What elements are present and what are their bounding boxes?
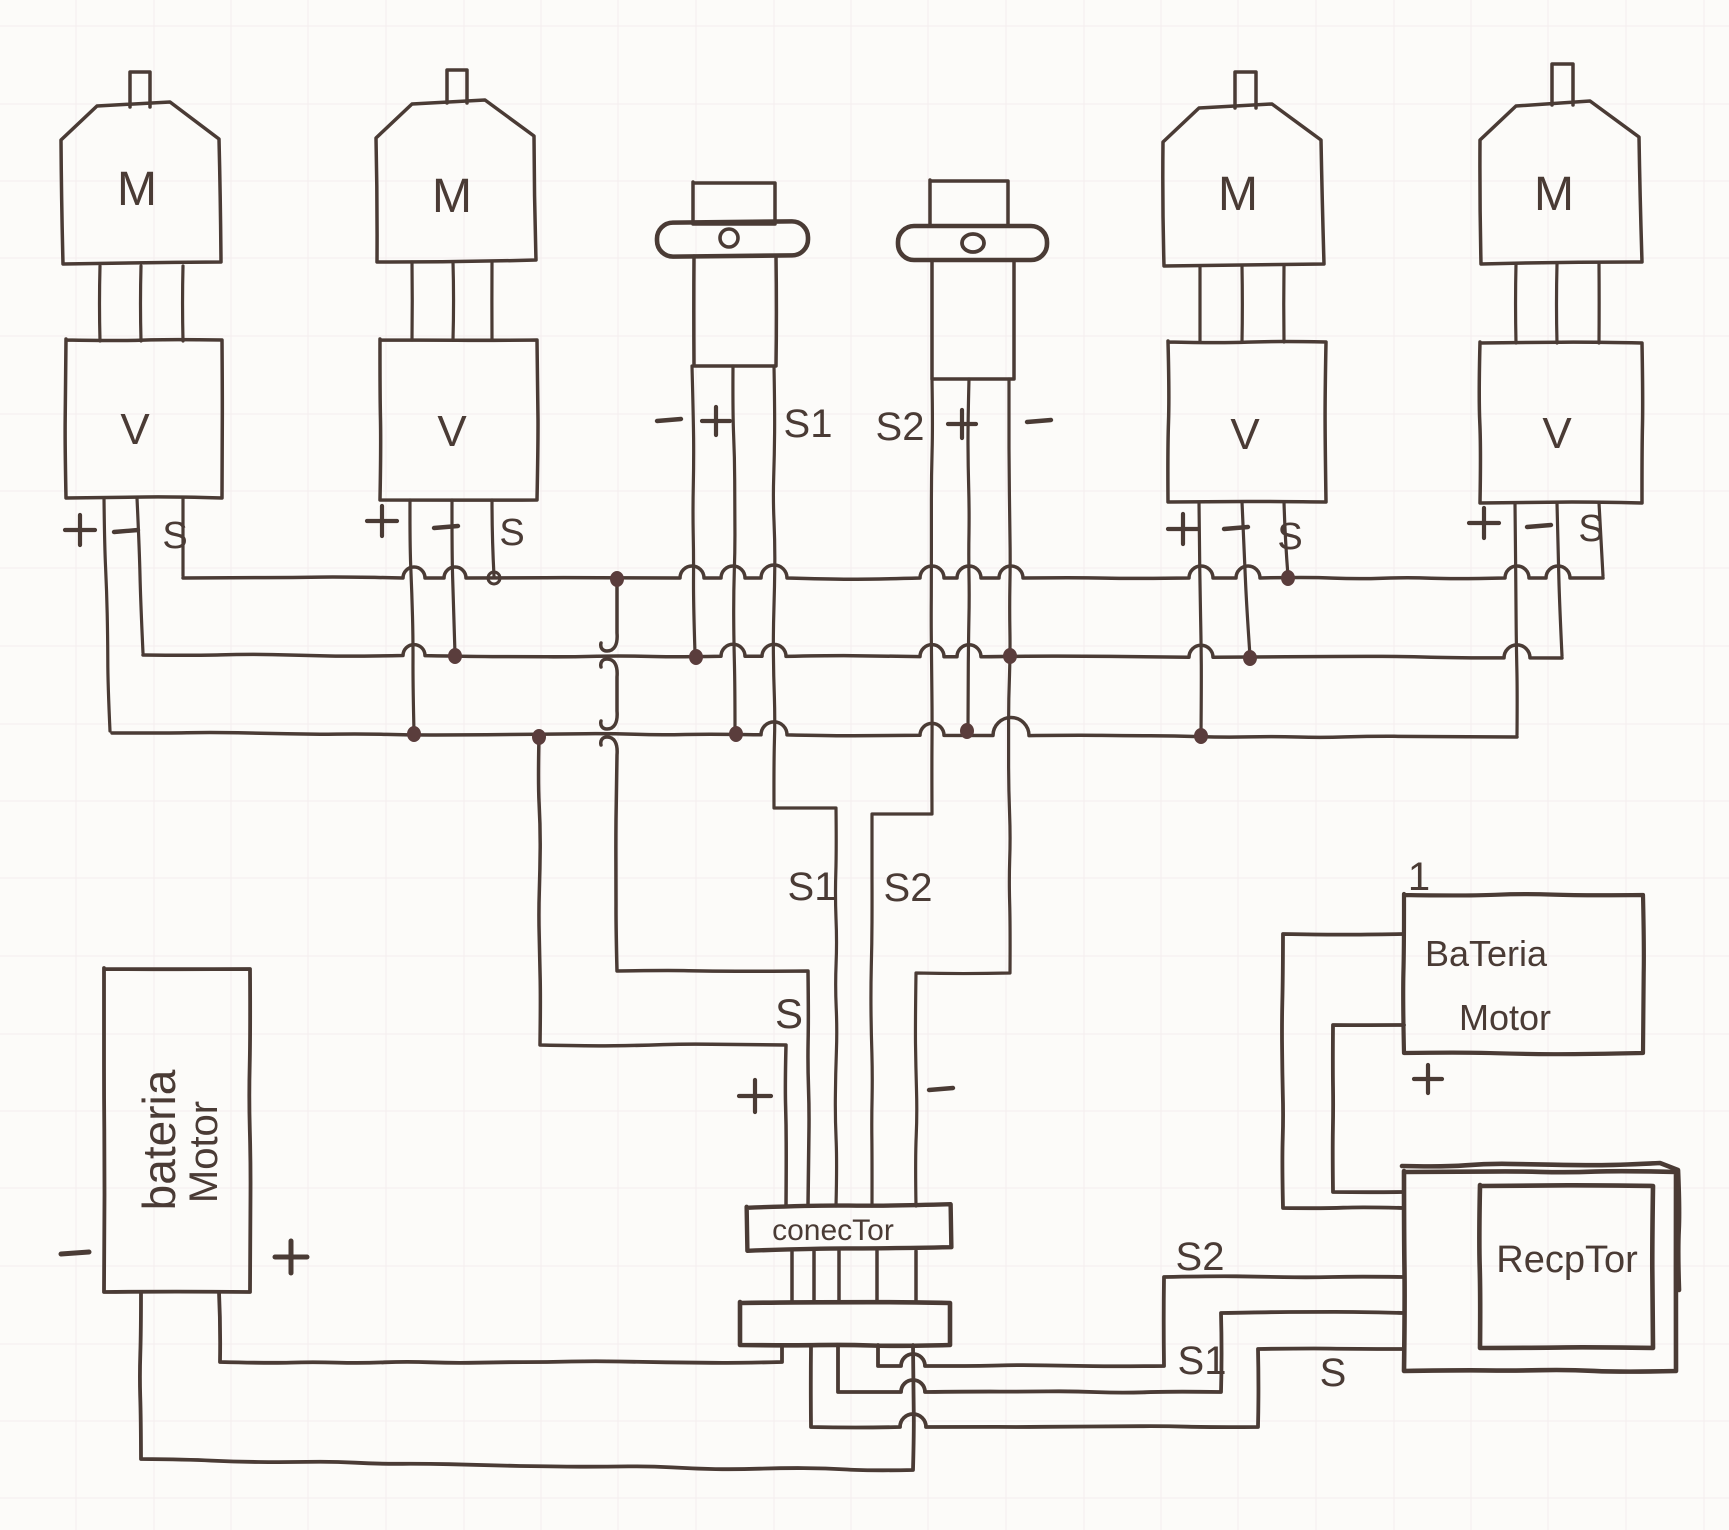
ESC1 + label <box>65 528 95 532</box>
motor M4 body <box>1480 101 1642 264</box>
servo S1 body <box>694 256 777 366</box>
svg-text:S2: S2 <box>1176 1235 1225 1279</box>
motor M4 to ESC wires <box>1514 264 1518 343</box>
wire S bus <box>183 565 1603 579</box>
wire S2 to receptor <box>878 1276 1404 1366</box>
motor M1 body <box>61 102 221 264</box>
junction dots <box>610 571 624 587</box>
wire ESC1 - lead <box>137 498 143 653</box>
servo S2 + label <box>948 422 976 426</box>
- feed label <box>929 1088 953 1090</box>
servo S2 flange <box>898 226 1047 260</box>
servo S1 top <box>693 182 775 224</box>
svg-text:V: V <box>120 405 150 454</box>
wire ESC3 - lead <box>1242 502 1250 656</box>
wire battery - to connector <box>140 1292 914 1470</box>
wire ESC3 S lead <box>1284 502 1288 576</box>
svg-text:V: V <box>1230 410 1260 459</box>
svg-text:S1: S1 <box>1178 1339 1227 1383</box>
motor M2 body <box>376 100 536 262</box>
servo S2 top <box>930 180 1008 226</box>
battery + label <box>275 1255 307 1260</box>
wire servo S2 + lead <box>968 379 969 729</box>
wire servo S1 + lead <box>733 366 735 731</box>
wire S to receptor <box>811 1345 1404 1428</box>
wire ESC3 + lead <box>1199 502 1201 734</box>
svg-text:conecTor: conecTor <box>772 1214 894 1247</box>
ESC V3 box <box>1168 341 1326 502</box>
connector stub x877 <box>875 1251 879 1302</box>
svg-text:S2: S2 <box>884 866 933 910</box>
svg-text:V: V <box>437 407 467 456</box>
connector stub x916 <box>914 1251 918 1302</box>
svg-text:S2: S2 <box>876 405 925 449</box>
bateria motor box <box>1403 894 1644 1054</box>
motor M2 shaft <box>447 70 467 103</box>
svg-text:M: M <box>1218 168 1258 221</box>
wire servo S1 - lead <box>692 366 695 653</box>
wire - bus <box>143 644 1562 658</box>
ESC3 - label <box>1224 527 1248 529</box>
ESC V2 box <box>380 339 538 500</box>
+ feed label <box>739 1094 771 1098</box>
connector stub x839 <box>837 1251 841 1302</box>
motor M1 shaft <box>130 72 150 107</box>
ESC4 - label <box>1527 525 1551 527</box>
ESC1 - label <box>114 530 138 532</box>
motor M3 body <box>1163 104 1324 266</box>
svg-text:S: S <box>1277 516 1302 558</box>
motor M2 to ESC wires <box>410 262 413 340</box>
servo S1 - label <box>657 419 681 421</box>
servo S1 shaft circle <box>720 229 738 247</box>
wire bateria to receptor 1 <box>1282 934 1404 1208</box>
ESC3 + label <box>1168 527 1198 531</box>
svg-text:S1: S1 <box>788 865 837 909</box>
connector bottom bar <box>740 1302 950 1346</box>
motor M3 to ESC wires <box>1198 266 1201 342</box>
svg-text:S1: S1 <box>784 402 833 446</box>
battery - label <box>61 1252 89 1254</box>
svg-text:S: S <box>1320 1351 1347 1395</box>
receptor outer box double stroke <box>1402 1163 1679 1290</box>
ESC V4 box <box>1479 342 1642 503</box>
wire ESC2 - lead <box>452 500 455 654</box>
receptor outer box <box>1404 1171 1676 1372</box>
svg-text:S: S <box>162 515 187 557</box>
ESC2 + label <box>367 519 397 523</box>
receptor inner box <box>1479 1185 1653 1348</box>
svg-text:M: M <box>117 163 157 216</box>
connector stub x814 <box>812 1251 816 1302</box>
wire ESC4 S lead <box>1599 503 1603 576</box>
svg-text:BaTeria: BaTeria <box>1425 933 1548 974</box>
svg-text:V: V <box>1542 409 1572 458</box>
wire bateria to receptor 2 <box>1333 1025 1404 1192</box>
wire ESC1 + lead <box>104 498 110 731</box>
connector stub x792 <box>790 1251 794 1302</box>
connector box <box>747 1203 952 1251</box>
svg-text:S: S <box>775 990 803 1037</box>
svg-text:M: M <box>1534 168 1574 221</box>
battery box bateria Motor <box>104 968 251 1292</box>
wire battery + to connector <box>219 1292 782 1363</box>
motor M3 shaft <box>1235 72 1256 108</box>
wire + bus <box>112 718 1517 738</box>
servo S1 + label <box>702 419 730 423</box>
svg-text:S: S <box>499 512 524 554</box>
servo S2 - label <box>1027 420 1051 422</box>
wire + feed to connector <box>539 737 787 1206</box>
wire S feed to connector <box>601 579 809 1206</box>
svg-text:RecpTor: RecpTor <box>1496 1239 1638 1281</box>
open circle junction ESC2 S <box>488 572 500 584</box>
wire servo S2 - lead <box>915 379 1010 1206</box>
svg-text:1: 1 <box>1408 855 1430 899</box>
wire S1 to receptor <box>838 1312 1404 1393</box>
svg-text:S: S <box>1578 508 1603 550</box>
servo S2 body <box>932 260 1014 379</box>
servo S2 shaft circle <box>962 234 984 252</box>
ESC2 - label <box>434 526 458 528</box>
wire ESC2 S lead <box>492 500 494 576</box>
servo S1 flange <box>657 221 808 257</box>
wire ESC4 - lead <box>1557 503 1562 656</box>
bateria motor + label <box>1414 1077 1442 1081</box>
ESC4 + label <box>1469 521 1499 525</box>
motor M4 shaft <box>1552 64 1573 105</box>
wire servo S1 signal lead <box>773 366 836 1206</box>
motor M1 to ESC wires <box>98 266 102 341</box>
wire ESC2 + lead <box>410 500 414 732</box>
svg-text:Motor: Motor <box>182 1101 226 1203</box>
svg-text:bateria: bateria <box>133 1069 185 1210</box>
wire servo S2 signal lead <box>871 379 932 1206</box>
wire ESC4 + lead <box>1515 503 1517 735</box>
ESC V1 box <box>65 339 222 498</box>
svg-text:Motor: Motor <box>1459 997 1551 1038</box>
svg-text:M: M <box>432 170 472 223</box>
wire ESC1 S lead <box>181 498 184 576</box>
